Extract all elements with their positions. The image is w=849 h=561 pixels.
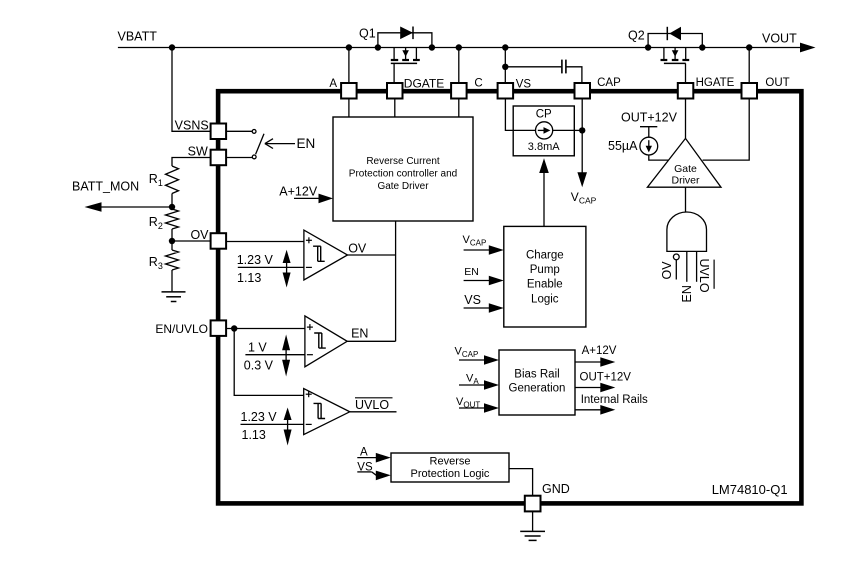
AND gate input UVLO wire [696,251,698,281]
svg-text:OUT+12V: OUT+12V [580,372,632,384]
hysteresis arrows (EN) [282,335,290,377]
wire A pin to rail [348,48,350,84]
junction EN/UVLO node [231,325,237,331]
AND gate input OV bubble [673,254,679,260]
switch EN arrow [265,139,295,149]
svg-text:VOUT: VOUT [762,32,797,46]
svg-text:Generation: Generation [509,383,566,395]
comparator OV output wire [348,254,396,256]
BRG output A+12V arrow [575,357,615,367]
wire 55uA source to gate driver [649,155,669,160]
wire HGATE pin to gate driver [685,99,687,139]
svg-text:A+12V: A+12V [279,184,318,198]
svg-text:Enable: Enable [527,279,563,291]
block RCP Reverse Current Protection controller [333,117,473,221]
svg-text:EN: EN [297,136,316,151]
pin box EN/UVLO [211,320,227,336]
comparator EN hysteresis symbol [314,333,326,348]
wire OUT pin to gate driver [703,99,750,161]
wire VBATT top rail [118,47,800,49]
svg-text:Logic: Logic [531,293,559,305]
ground symbol resistor divider [162,292,186,302]
BATT_MON output arrow [85,202,102,211]
junction rail/Q1 left [375,44,381,50]
wire GND pin to ground symbol [532,511,534,530]
CPEL input EN arrow [464,276,504,286]
pin box HGATE [678,83,694,99]
junction rail/Q1 right [429,44,435,50]
transistor Q2 diode [667,27,681,40]
junction VS/capacitor branch [502,64,508,70]
svg-text:C: C [474,77,482,89]
input A+12V arrow [294,194,333,204]
svg-text:CP: CP [536,109,552,121]
block BRG text [509,368,566,394]
svg-text:Q2: Q2 [628,29,645,43]
signal label UVLO with overline [355,398,393,412]
hysteresis arrows (UVLO) [284,408,292,446]
svg-text:Driver: Driver [672,175,701,187]
block CPEL text [526,249,564,305]
pin box OV [211,233,227,249]
svg-text:VS: VS [464,293,481,307]
pin box DGATE [387,83,403,99]
svg-text:55µA: 55µA [608,139,638,153]
svg-text:OUT+12V: OUT+12V [621,111,678,125]
junction rail/OUT [746,44,752,50]
block CP charge pump [513,106,574,156]
wire capacitor to CAP pin [567,67,582,83]
BRG input VOUT arrow [459,403,499,413]
comparator UVLO hysteresis symbol [314,403,326,418]
svg-text:OUT: OUT [765,77,789,89]
pin box OUT [742,83,758,99]
svg-text:1.13: 1.13 [242,428,266,442]
AND gate label UVLO rotated with overline [697,259,714,293]
svg-text:UVLO: UVLO [355,398,389,412]
svg-text:VSNS: VSNS [175,118,209,132]
svg-text:DGATE: DGATE [404,76,444,90]
svg-text:SW: SW [188,145,208,159]
wire R1 to BATT_MON node [171,194,173,210]
RPL input A arrow [357,453,391,463]
svg-text:BATT_MON: BATT_MON [72,180,139,194]
wire gate driver to AND gate [685,187,687,212]
svg-text:EN: EN [351,326,368,340]
switch EN wires and contacts [226,130,264,159]
svg-text:VS: VS [516,78,532,90]
wire C pin to rail [458,48,460,84]
pin box C [451,83,467,99]
comparator OV hysteresis symbol [313,246,325,261]
BRG input VCAP arrow [459,355,499,365]
svg-text:OV: OV [190,228,209,242]
block Charge Pump Enable Logic [504,226,586,327]
svg-text:Gate Driver: Gate Driver [377,181,429,192]
svg-text:Reverse: Reverse [430,455,471,467]
svg-text:Bias Rail: Bias Rail [514,368,559,380]
svg-text:A+12V: A+12V [582,345,617,357]
transistor Q1 mosfet [391,48,420,84]
current source CP 3.8mA [513,122,574,139]
svg-text:Reverse Current: Reverse Current [366,156,440,167]
svg-text:1.23 V: 1.23 V [237,253,274,267]
svg-text:GND: GND [542,482,570,496]
wire OV node to R3 [171,241,173,250]
pin box A [341,83,357,99]
svg-text:CAP: CAP [597,77,621,89]
svg-text:OV: OV [660,261,674,280]
comparator EN plus minus [307,324,313,355]
wire DGATE pin to RCP block [394,99,396,118]
IC boundary box LM74810-Q1 [218,91,801,503]
resistor R1 [166,166,179,194]
comparator EN input wire [226,328,305,330]
pin box SW [211,150,227,166]
wire SW branch to resistor divider [172,158,210,167]
svg-text:Protection Logic: Protection Logic [411,468,490,480]
CPEL input VS arrow [464,303,504,313]
svg-text:A: A [329,78,337,90]
block RCP text [349,156,457,192]
block Reverse Protection Logic [391,453,509,482]
junction rail/C [456,44,462,50]
wire BATT_MON [101,206,172,208]
wire R3 to ground [171,270,173,291]
svg-text:EN: EN [464,266,479,278]
svg-text:1.13: 1.13 [237,271,261,285]
resistor R2 [166,209,179,229]
svg-text:VBATT: VBATT [118,30,158,44]
resistor R3 [166,250,179,270]
gate driver text [672,163,701,187]
svg-text:OV: OV [348,242,367,256]
wire VS pin to rail [504,48,506,84]
svg-text:UVLO: UVLO [697,259,711,293]
svg-text:EN/UVLO: EN/UVLO [155,322,208,336]
svg-text:A: A [360,447,368,459]
wire RPL output to GND pin [509,469,533,496]
comparator OV triangle [304,230,348,280]
junction rail/Q2 right [699,44,705,50]
pin box CAP [575,83,591,99]
svg-text:EN: EN [680,285,694,302]
svg-text:LM74810-Q1: LM74810-Q1 [712,482,788,497]
svg-text:0.3 V: 0.3 V [244,358,274,372]
wire VSNS branch from VBATT [172,48,210,132]
transistor Q2 mosfet [661,48,690,84]
wire A pin to RCP block [348,99,350,118]
capacitor between VS and CAP [562,60,566,74]
AND gate input OV wire [675,260,677,280]
svg-text:1.23 V: 1.23 V [241,410,278,424]
wire VS pin to CP current source [505,99,513,131]
junction BATT_MON node [169,204,175,210]
wire VCAP node down to VCAP arrow [581,130,583,173]
comparator UVLO plus minus [306,391,312,424]
comparator UVLO reference line [241,423,304,425]
wire R2 to OV node [171,229,173,241]
wire CAP pin to VCAP node [581,99,583,131]
AND gate U2 [667,212,707,251]
comparator EN output wire [347,340,395,342]
comparator OV reference line [238,266,304,268]
svg-text:Internal Rails: Internal Rails [581,394,648,406]
svg-text:HGATE: HGATE [696,77,735,89]
comparator EN reference line [245,354,305,356]
svg-text:Charge: Charge [526,249,564,261]
svg-text:Gate: Gate [674,163,697,175]
junction VBATT/VSNS [169,44,175,50]
RPL input VS arrow [357,471,391,481]
junction VCAP node [579,127,585,133]
comparator UVLO triangle [304,389,350,435]
svg-text:1 V: 1 V [248,340,267,354]
block RPL text [411,455,490,480]
wire OUT pin to rail [748,48,750,84]
junction rail/A [346,44,352,50]
comparator UVLO output wire [350,411,397,413]
pin box VSNS [211,124,227,140]
gate driver triangle U1 [647,138,721,187]
wire EN/UVLO node to UVLO comparator [234,329,304,396]
pin box VS [498,83,513,99]
junction rail/Q2 left [645,44,651,50]
wire OV node to OV pin [172,240,210,242]
wire RCP block output down to comparators [395,221,397,341]
block Bias Rail Generation [499,350,575,415]
transistor Q1 diode [400,27,413,40]
junction OV node [169,238,175,244]
BRG output Internal Rails arrow [575,405,615,415]
VOUT output arrow [800,43,816,53]
current source 55uA [640,127,658,155]
CPEL input VCAP arrow [464,245,504,255]
VCAP down arrowhead [577,172,587,187]
wire CP box to VCAP node [574,129,582,131]
svg-text:Pump: Pump [530,264,560,276]
comparator OV plus minus [306,237,312,267]
hysteresis arrows (OV) [283,250,291,288]
transistor Q2 body diode loop [648,34,702,48]
junction rail/VS [502,44,508,50]
charge pump enable arrowhead [539,158,549,173]
comparator OV input wire [226,241,304,243]
AND gate input EN wire [686,251,688,281]
wire charge pump enable to CP box [543,172,545,226]
transistor Q1 body diode loop [378,33,432,48]
BRG output OUT+12V arrow [575,383,615,393]
comparator EN triangle [305,316,347,367]
svg-text:3.8mA: 3.8mA [528,141,560,153]
wire VS node to capacitor [505,66,561,68]
svg-text:Protection controller and: Protection controller and [349,169,457,180]
BRG input VA arrow [459,380,499,390]
svg-text:Q1: Q1 [359,27,376,41]
pin box GND [525,496,541,512]
ground symbol GND [520,531,545,540]
wire C pin to RCP block [458,99,460,118]
